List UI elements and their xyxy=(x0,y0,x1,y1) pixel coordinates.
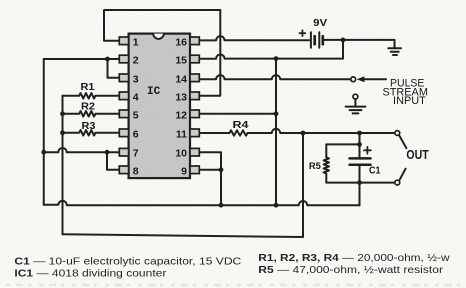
wire pin1 to pin13 top route xyxy=(104,10,220,96)
junction bus2 R3 xyxy=(60,130,65,135)
pin 16 stub xyxy=(190,37,199,45)
pin 13 stub xyxy=(190,92,199,100)
pin 6 stub xyxy=(119,129,128,137)
pin 1 stub xyxy=(119,37,128,45)
wire A riser to C1 bottom xyxy=(359,183,361,206)
pin 5 stub xyxy=(119,110,128,118)
junction pins 7-8 xyxy=(105,150,110,155)
IC pin numbers xyxy=(133,36,187,177)
pin 8 stub xyxy=(119,166,128,174)
pin 10 stub xyxy=(190,148,199,156)
junction pin9-10 ground wire xyxy=(219,203,224,208)
wire pin12 to ground net xyxy=(199,113,276,115)
resistor R5 vertical xyxy=(324,144,329,182)
junction R5 top xyxy=(357,142,362,147)
junction pin15 ground net xyxy=(274,56,279,61)
wire pin3 branch from pin2 xyxy=(108,59,120,78)
wire ground input stem xyxy=(354,99,356,106)
wire R5 top to C1 xyxy=(326,143,359,145)
junction C1 bottom node xyxy=(357,180,362,185)
junction pins 2-3 xyxy=(105,57,110,62)
arrow pulse input xyxy=(362,78,386,80)
pin 7 stub xyxy=(119,148,128,156)
pin 3 stub xyxy=(119,74,128,82)
capacitor C1 leads xyxy=(359,133,361,157)
terminal OUT minus xyxy=(395,180,400,185)
resistor R1 xyxy=(63,93,120,98)
IC U1 body xyxy=(129,34,190,179)
terminal pulse input xyxy=(351,77,356,82)
lead OUT minus diagonal xyxy=(399,169,405,181)
wire pin8 branch xyxy=(107,152,119,170)
lead OUT plus diagonal xyxy=(399,135,406,148)
pin 4 stub xyxy=(119,92,128,100)
wire pin15 to battery minus with hop xyxy=(199,40,343,59)
IC pin stubs xyxy=(119,37,199,174)
pin 14 stub xyxy=(190,74,199,82)
ground input symbol xyxy=(346,106,366,108)
wire pin10 pin9 to wire A xyxy=(199,152,221,205)
pin 12 stub xyxy=(190,110,199,118)
paper texture xyxy=(0,0,1,1)
plus sign battery xyxy=(300,30,306,36)
junction ground net bottom xyxy=(274,203,279,208)
wire bus1 vertical xyxy=(43,59,45,205)
junction C1 top node xyxy=(357,131,362,136)
wire bus2 vertical xyxy=(62,96,64,235)
ground input circle terminal xyxy=(353,94,358,99)
wire pin2 to bus1 xyxy=(44,58,120,60)
junction bus1 pin7 wire xyxy=(41,150,46,155)
plus sign C1 xyxy=(364,147,371,154)
wire pin16 to battery with hop xyxy=(199,36,309,40)
pin 2 stub xyxy=(119,55,128,63)
battery B1 9V xyxy=(310,32,312,47)
junction bus2 R2 xyxy=(60,111,65,116)
resistor R4 and wire to OUT plus with hop xyxy=(199,129,395,136)
scan artifact bottom band xyxy=(6,284,460,286)
wire A ground bottom with hops xyxy=(44,201,360,205)
arrowhead pulse input xyxy=(357,76,365,82)
junction pins 9-10 xyxy=(219,167,224,172)
resistor R3 xyxy=(63,130,120,135)
IC notch xyxy=(153,34,164,39)
caption parts list xyxy=(14,253,450,280)
junction R4 output node xyxy=(301,131,306,136)
junction battery minus xyxy=(341,38,346,43)
wire pin7 from bus1 with hop over bus2 xyxy=(44,148,120,152)
wire C resistor net bottom xyxy=(63,133,304,237)
wire ground net vertical xyxy=(275,59,277,206)
wire pin14 to pulse input with hops xyxy=(199,75,350,79)
capacitor C1 plates xyxy=(350,157,371,160)
wire battery to ground xyxy=(324,40,394,48)
ground chassis top right xyxy=(388,47,401,49)
pin 15 stub xyxy=(190,55,199,63)
resistor R2 xyxy=(63,111,120,116)
wire OUT minus bottom xyxy=(326,182,395,184)
pin 11 stub xyxy=(190,129,199,137)
pin 9 stub xyxy=(190,166,199,174)
terminal OUT plus xyxy=(395,131,400,136)
junction pin12 ground net xyxy=(274,111,279,116)
